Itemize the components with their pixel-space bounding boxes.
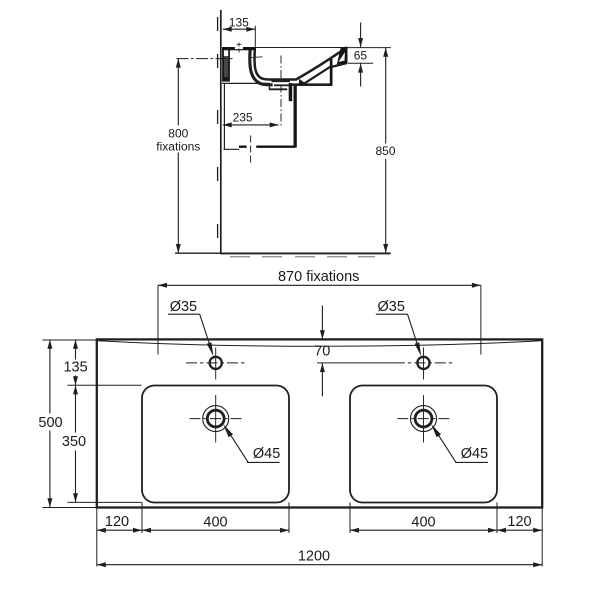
svg-text:400: 400 (411, 515, 435, 531)
svg-text:400: 400 (203, 515, 227, 531)
svg-text:Ø35: Ø35 (170, 299, 197, 315)
svg-text:fixations: fixations (156, 139, 200, 153)
svg-text:870 fixations: 870 fixations (278, 269, 359, 285)
svg-text:Ø45: Ø45 (253, 446, 280, 462)
svg-text:500: 500 (38, 415, 62, 431)
svg-text:350: 350 (62, 434, 86, 450)
svg-text:70: 70 (314, 344, 330, 360)
svg-text:120: 120 (507, 514, 531, 530)
svg-text:1200: 1200 (298, 549, 330, 565)
svg-text:235: 235 (233, 111, 253, 125)
svg-text:65: 65 (354, 49, 368, 63)
svg-text:850: 850 (375, 144, 395, 158)
svg-text:120: 120 (105, 514, 129, 530)
svg-text:Ø35: Ø35 (377, 299, 404, 315)
svg-text:135: 135 (63, 360, 87, 376)
svg-text:135: 135 (229, 16, 249, 30)
svg-text:Ø45: Ø45 (461, 446, 488, 462)
